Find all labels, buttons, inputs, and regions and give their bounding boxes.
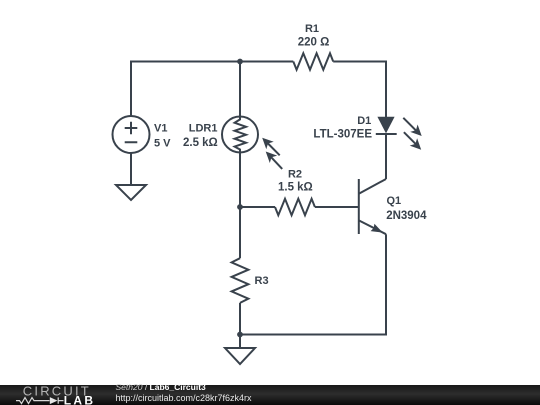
LED arrowhead 2 <box>410 138 422 150</box>
svg-text:R3: R3 <box>255 275 269 287</box>
svg-text:V1: V1 <box>154 122 167 134</box>
voltage source V1 <box>113 116 150 153</box>
svg-text:R2: R2 <box>288 169 302 181</box>
LDR1 arrowhead 2 <box>266 152 278 164</box>
wire top right segment <box>333 62 386 118</box>
junction node top <box>237 59 243 65</box>
footer credit line <box>116 383 252 402</box>
junction node bottom <box>237 332 243 338</box>
Q1 emitter arrowhead <box>371 224 383 233</box>
resistor R3 <box>232 258 249 303</box>
wire top left segment <box>131 62 293 117</box>
svg-text:1.5 kΩ: 1.5 kΩ <box>278 182 313 194</box>
svg-text:Q1: Q1 <box>387 195 402 207</box>
wire middle vertical top <box>239 62 241 118</box>
footer bar <box>0 385 540 405</box>
svg-text:5 V: 5 V <box>154 137 171 149</box>
photoresistor LDR1 <box>222 117 258 153</box>
wire LED to transistor collector <box>385 134 387 179</box>
LED D1 <box>376 117 397 134</box>
wire emitter down and bottom <box>240 234 386 334</box>
LED D1 light arrow 2 <box>404 132 416 144</box>
svg-text:LTL-307EE: LTL-307EE <box>313 129 372 141</box>
LDR1 arrowhead 1 <box>262 138 274 150</box>
wire V1 to ground <box>130 153 132 185</box>
wire base node to R2 <box>240 206 275 208</box>
LED D1 light arrow 1 <box>403 118 416 131</box>
svg-text:LDR1: LDR1 <box>189 122 218 134</box>
resistor R2 <box>275 199 315 215</box>
LED arrowhead 1 <box>410 125 422 137</box>
wire R3 to bottom junction <box>239 303 241 348</box>
CircuitLab logo <box>0 385 110 405</box>
svg-text:R1: R1 <box>305 23 319 35</box>
junction node base <box>237 204 243 210</box>
resistor R1 <box>293 53 333 69</box>
LDR1 light arrow 2 <box>271 157 282 169</box>
svg-text:220 Ω: 220 Ω <box>298 36 330 48</box>
transistor Q1 <box>359 179 386 234</box>
ground (bottom) <box>225 348 255 364</box>
svg-text:D1: D1 <box>357 115 371 127</box>
svg-text:LAB: LAB <box>64 393 96 405</box>
wire middle vertical (LDR to R3) <box>239 153 241 259</box>
LDR1 light arrow 1 <box>268 143 280 155</box>
svg-text:2.5 kΩ: 2.5 kΩ <box>183 137 218 149</box>
wire R2 to transistor base <box>315 206 359 208</box>
svg-text:2N3904: 2N3904 <box>386 210 427 222</box>
ground (under V1) <box>116 185 146 200</box>
